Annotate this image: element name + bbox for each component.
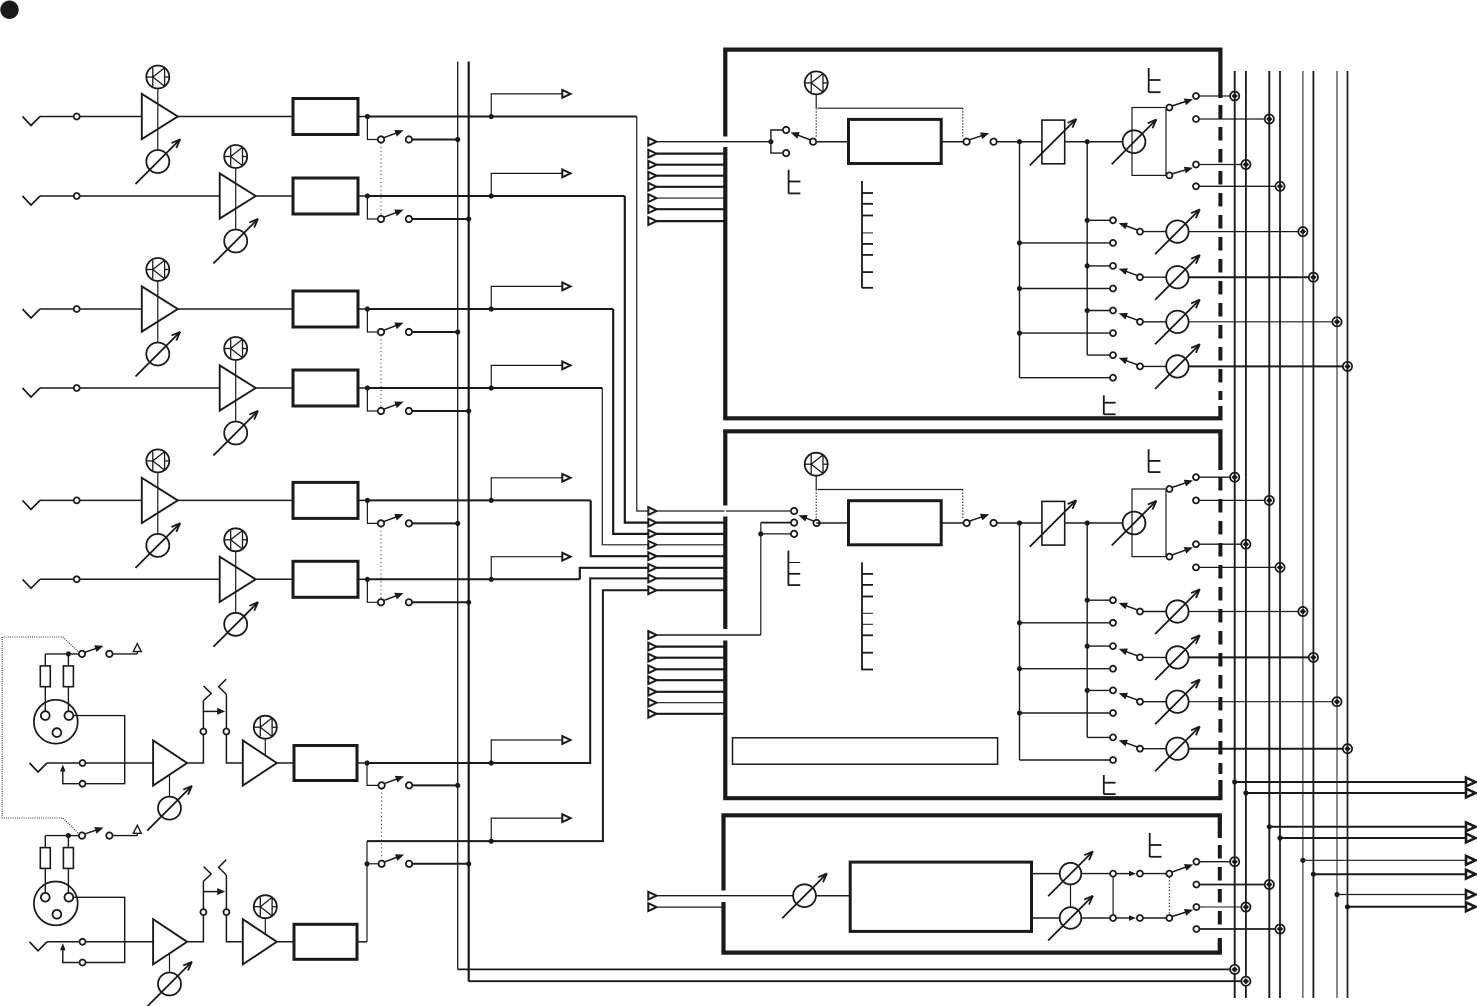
- gain pot CH2: [224, 230, 247, 253]
- wire CH2 to stereo box feed: [625, 196, 725, 523]
- aux send 4 wiper: [1137, 363, 1143, 369]
- junction bus7: [1332, 317, 1341, 326]
- arrow stereo box fan1 input 8: [648, 586, 656, 594]
- arrow box1 input 4: [648, 172, 656, 180]
- aux send 2 wiper: [1137, 654, 1143, 660]
- routing switch CH3: [378, 329, 384, 335]
- aux send 2 lower terminal: [1110, 666, 1116, 672]
- bus A bottom wire to main bus 1: [458, 968, 1231, 970]
- aux send 4 lower terminal: [1110, 375, 1116, 381]
- wire bus 3 output: [1269, 826, 1468, 828]
- wire assign 1 to bus 1: [1199, 476, 1231, 478]
- phantom switch MIC-A: [71, 653, 80, 655]
- node MIC-A branch: [489, 760, 494, 765]
- routing switch CH1: [378, 136, 384, 142]
- junction bus6: [1309, 273, 1318, 282]
- wire FX out to bus3: [1199, 884, 1265, 886]
- contact MIC-A tip: [80, 760, 86, 766]
- junction bus5: [1298, 227, 1307, 236]
- peak LED CH6: [224, 528, 247, 551]
- junction bus3: [1265, 496, 1274, 505]
- gain pot CH6: [224, 613, 247, 636]
- wire aux wiper to pot: [1143, 748, 1166, 750]
- insert send jack MIC-B: [200, 909, 206, 915]
- box border top: [721, 813, 1222, 817]
- wire CH6 EQ output: [358, 578, 367, 580]
- wire CH2 EQ output: [358, 195, 367, 197]
- EQ bypass drop: [962, 108, 964, 138]
- aux send 2 lever: [1123, 270, 1138, 276]
- wire CH2 terminal to preamp: [80, 195, 220, 197]
- arrow box1 input 3: [648, 161, 656, 169]
- aux send 3 lower terminal: [1110, 710, 1116, 716]
- connector comb box2: [861, 562, 863, 670]
- wire aux 1 to bus 5: [1189, 611, 1300, 613]
- wire CH5 post-EQ line: [367, 499, 590, 501]
- pre-fader aux feed line: [1019, 142, 1021, 378]
- wire aux 1 to bus 5: [1189, 231, 1300, 233]
- switch pole: [810, 139, 816, 145]
- wire CH1 direct-out branch: [491, 94, 570, 117]
- wire CH3 direct-out branch: [491, 286, 570, 309]
- routing switch MIC-A: [378, 782, 384, 788]
- aux send 4 post tap: [1087, 354, 1110, 356]
- box border right dashed: [1218, 477, 1222, 774]
- insert return jack MIC-B: [223, 909, 229, 915]
- wire stereo box fan2 input 1: [648, 634, 761, 636]
- wire CH5 preamp to EQ: [178, 499, 293, 501]
- wire throw2 feed: [761, 522, 791, 524]
- wire CH4 to stereo box feed: [602, 388, 724, 545]
- arrow CH5 direct out: [562, 474, 570, 482]
- wire MIC-B jack to contact: [47, 941, 80, 943]
- select throw 2: [791, 519, 797, 525]
- junction bus7: [1332, 697, 1341, 706]
- wire CH2 direct-out branch: [491, 173, 570, 196]
- wire stereo box fan2 input 8: [648, 713, 725, 715]
- gang link FX switches: [1168, 877, 1170, 914]
- arrow stereo box fan1 input 7: [648, 575, 656, 583]
- aux send 3 lever: [1123, 695, 1138, 701]
- aux send 3 post tap: [1085, 688, 1090, 693]
- connector symbol E7: [1149, 833, 1151, 857]
- preamp CH6: [220, 557, 256, 602]
- wire bus 8 output: [1348, 906, 1469, 908]
- gang link switches CH5/CH6: [380, 527, 382, 599]
- phantom rail MIC-A: [45, 653, 68, 655]
- aux send 2 wiper: [1137, 274, 1143, 280]
- wire MIC-B switch to bus B: [412, 863, 468, 865]
- aux send 2 pot: [1166, 646, 1188, 668]
- wire LED CH1 stem: [157, 89, 159, 151]
- node CH5 branch: [489, 498, 494, 503]
- wire CH4 post-EQ line: [367, 387, 602, 389]
- wire CH6 direct-out branch: [491, 557, 570, 580]
- assign switch upper lever: [1172, 100, 1189, 106]
- junction bus5: [1298, 607, 1307, 616]
- node bus 6 output tap: [1311, 872, 1316, 877]
- insert send jack MIC-A: [200, 729, 206, 735]
- terminal CH5 input: [74, 497, 80, 503]
- aux send 2 pot: [1166, 266, 1188, 288]
- node CH1 post-EQ: [365, 114, 370, 119]
- peak LED MIC-A: [254, 716, 277, 739]
- node CH3 branch: [489, 306, 494, 311]
- channel CH2 input jack: [23, 196, 41, 205]
- junction bus4: [1275, 563, 1284, 572]
- junction bus1: [1230, 473, 1239, 482]
- wire CH3 preamp to EQ: [178, 308, 293, 310]
- arrow stereo box fan2 input 5: [648, 676, 656, 684]
- FX processor block: [850, 862, 1031, 931]
- EQ block CH5: [293, 482, 358, 518]
- peak LED CH3: [146, 258, 169, 281]
- wire MIC-A pin2 to R2: [67, 687, 69, 712]
- wire MIC-A contact to amp: [86, 762, 154, 764]
- main bus 8 vertical: [1347, 71, 1349, 998]
- aux send 1 wiper: [1137, 609, 1143, 615]
- wire box3 input 2: [648, 906, 724, 908]
- arrow MIC-B normalling: [62, 950, 64, 963]
- wire CH1 to routing switch: [367, 117, 378, 140]
- node CH1 branch: [489, 114, 494, 119]
- aux send 1 lever: [1123, 225, 1138, 231]
- FX input pot: [793, 884, 816, 907]
- node bus 3 output tap: [1267, 824, 1272, 829]
- wire assign 2 to bus 3: [1199, 499, 1266, 501]
- wire aux wiper to pot: [1143, 365, 1166, 367]
- wire CH1 switch to bus: [412, 139, 458, 141]
- arrow MIC-B insert link: [203, 891, 218, 893]
- wire CH4 jack to pad terminal: [40, 387, 74, 389]
- bus B bottom wire to main bus 2: [469, 980, 1243, 982]
- wire MIC-A to stereo box feed: [367, 578, 725, 763]
- node pre-fader send: [1017, 520, 1022, 525]
- wire EQ to bypass switch: [941, 522, 963, 524]
- aux send 4 lever: [1123, 742, 1138, 748]
- wire CH3 switch to bus: [412, 331, 458, 333]
- connector symbol E3: [1103, 395, 1105, 414]
- FX assign pivot R: [1166, 915, 1172, 921]
- node CH2 post-EQ: [365, 193, 370, 198]
- aux send 3 pot: [1166, 311, 1188, 333]
- wire MIC-B preamp to insert send: [187, 915, 203, 942]
- bypass switch pivot: [963, 139, 969, 145]
- pan splitter: [1132, 108, 1166, 176]
- wire CH6 terminal to preamp: [80, 578, 220, 580]
- gain pot CH1: [146, 150, 169, 173]
- assign throw 1: [1193, 93, 1199, 99]
- wire CH6 to stereo box feed: [580, 568, 725, 580]
- arrow bus 2 output: [1466, 789, 1476, 798]
- connector symbol E4: [787, 551, 789, 586]
- junction bus2: [1241, 160, 1250, 169]
- preamp CH1: [142, 94, 178, 139]
- arrow stereo box fan2 input 7: [648, 699, 656, 707]
- FX throw 1: [1193, 859, 1199, 865]
- wire assign 2 to bus 3: [1199, 118, 1266, 120]
- XLR MIC-B pin 2: [65, 893, 74, 902]
- box border right solid top: [1218, 50, 1222, 98]
- channel CH5 input jack: [23, 500, 41, 509]
- box border right solid top: [1218, 431, 1222, 470]
- wire stereo box fan2 input 7: [648, 702, 725, 704]
- node CH5 post-EQ: [365, 498, 370, 503]
- node MIC-A phantom rail: [66, 651, 71, 656]
- wire CH5 EQ output: [358, 499, 367, 501]
- wire send jacks link: [1112, 877, 1114, 915]
- wire CH6 to routing switch: [367, 579, 378, 602]
- wire MIC-B to routing switch: [367, 863, 378, 865]
- aux send 3 lever: [1123, 315, 1138, 321]
- FX throw 4: [1193, 926, 1199, 932]
- aux send 1 upper terminal: [1110, 217, 1116, 223]
- wire CH5 to stereo box feed: [591, 500, 725, 556]
- wire pot R to send jack: [1081, 917, 1110, 919]
- wire box1 input 3: [648, 164, 725, 166]
- XLR MIC-A pin 3: [53, 728, 62, 737]
- pan pot: [1123, 512, 1146, 535]
- bypass switch pivot: [963, 520, 969, 526]
- wire CH1 EQ output: [358, 116, 367, 118]
- wire pots link: [1070, 884, 1072, 907]
- wire MIC-A pin1 to R1: [44, 687, 46, 712]
- arrow bus 8 output: [1466, 902, 1476, 911]
- node bus 2 output tap: [1243, 790, 1248, 795]
- node CH1 bus tap: [455, 137, 460, 142]
- preamp CH5: [142, 478, 178, 523]
- aux send 1 lever: [1123, 604, 1138, 610]
- wire pot L to send jack: [1081, 873, 1110, 875]
- pre-fader aux feed line: [1019, 523, 1021, 760]
- wire CH3 EQ output: [358, 308, 367, 310]
- arrow box3 input 1: [648, 892, 656, 900]
- wire EQ to bypass switch: [941, 141, 963, 143]
- wire MIC-A amp to EQ: [277, 762, 294, 764]
- wire CH1 jack to pad terminal: [40, 116, 74, 118]
- wire CH4 preamp to EQ: [256, 387, 293, 389]
- wire aux wiper to pot: [1143, 656, 1166, 658]
- wire CH6 preamp to EQ: [256, 578, 293, 580]
- wire MIC-A phantom switch to +48V: [113, 653, 138, 655]
- wire MIC-A pot stem: [169, 774, 171, 797]
- arrow CH2 direct out: [562, 170, 570, 178]
- mic preamp MIC-B: [153, 919, 187, 964]
- wire MIC-B normal loop: [63, 959, 80, 963]
- EQ bypass switch input node: [768, 139, 773, 144]
- wire aux wiper to pot: [1143, 276, 1166, 278]
- arrow box3 input 2: [648, 903, 656, 911]
- aux send 4 upper terminal: [1110, 352, 1116, 358]
- main bus 5 vertical: [1302, 71, 1304, 998]
- wire CH3 post-EQ line: [367, 308, 613, 310]
- wire MIC-B EQ output: [357, 941, 367, 943]
- node MIC-A post-EQ: [364, 760, 369, 765]
- wire MIC-B pin2 to R2: [67, 868, 69, 893]
- routing switch MIC-B: [378, 861, 384, 867]
- arrow FX link L: [1116, 873, 1130, 875]
- peak LED CH2: [224, 145, 247, 168]
- terminal CH3 input: [74, 306, 80, 312]
- aux send 4 pre tap: [1020, 759, 1111, 761]
- terminal CH2 input: [74, 193, 80, 199]
- wire MIC-B XLR output: [73, 897, 124, 942]
- node bus 4 output tap: [1277, 835, 1282, 840]
- arrow MIC-A direct out: [562, 736, 570, 744]
- node post-fader send: [1085, 139, 1090, 144]
- terminal CH6 input: [74, 576, 80, 582]
- wire bus 2 output: [1246, 792, 1468, 794]
- wire pot to FX: [816, 895, 850, 897]
- EQ bypass drop: [962, 490, 964, 520]
- XLR connector MIC-A: [34, 700, 78, 744]
- peak LED CH1: [146, 66, 169, 89]
- assign switch upper lever: [1172, 482, 1189, 488]
- wire stereo box fan2 input 6: [648, 691, 725, 693]
- bypass switch lever: [969, 516, 985, 522]
- peak LED CH5: [146, 449, 169, 472]
- gain pot MIC-B: [158, 973, 181, 996]
- gain pot CH3: [146, 343, 169, 366]
- insert return jack MIC-A: [223, 729, 229, 735]
- wire CH2 jack to pad terminal: [40, 195, 74, 197]
- box border right solid bottom: [1218, 938, 1222, 953]
- wire MIC-A R2 top: [67, 654, 69, 666]
- aux send 2 lever: [1123, 650, 1138, 656]
- wire CH4 direct-out branch: [491, 365, 570, 388]
- wire box1 input 1: [648, 141, 771, 143]
- assign throw 4: [1193, 183, 1199, 189]
- aux send 4 pot: [1166, 355, 1188, 377]
- wire CH4 EQ output: [358, 387, 367, 389]
- line amp MIC-B: [243, 919, 277, 964]
- wire assign 4 to bus 4: [1199, 185, 1276, 187]
- preamp CH4: [220, 365, 256, 410]
- main bus 1 vertical: [1234, 71, 1236, 998]
- FX return jack R: [1137, 915, 1143, 921]
- wire return R to switch: [1143, 917, 1166, 919]
- post-fader aux feed line: [1086, 523, 1088, 737]
- node CH6 branch: [489, 577, 494, 582]
- wire MIC-A insert return to amp: [226, 735, 242, 764]
- arrow CH4 direct out: [562, 362, 570, 370]
- wire MIC-A normal loop: [63, 780, 80, 784]
- junction bus8: [1343, 744, 1352, 753]
- wire box3 input: [648, 895, 794, 897]
- wire aux 4 to bus 8: [1189, 365, 1344, 367]
- routing switch CH2: [378, 216, 384, 222]
- FX throw 3: [1193, 904, 1199, 910]
- arrow stereo box fan1 input 2: [648, 519, 656, 527]
- assign throw 4: [1193, 564, 1199, 570]
- phantom power loop wire: [2, 637, 79, 834]
- FX assign lever R: [1172, 911, 1190, 917]
- node CH2 branch: [489, 193, 494, 198]
- wire MIC-B LED stem: [264, 918, 266, 935]
- bypass switch throw: [990, 520, 996, 526]
- connector symbol E5: [1148, 449, 1150, 472]
- peak LED MIC-B: [254, 895, 277, 918]
- aux send 2 upper terminal: [1110, 643, 1116, 649]
- box border left: [723, 431, 727, 505]
- node CH6 bus tap: [466, 600, 471, 605]
- wire assign 1 to bus 1: [1199, 95, 1231, 97]
- aux send 4 pre tap: [1020, 377, 1111, 379]
- assign switch lower lever: [1172, 549, 1189, 555]
- pan pot: [1123, 130, 1146, 153]
- routing switch CH5: [378, 520, 384, 526]
- box border top: [723, 47, 1222, 51]
- wire to fader: [997, 141, 1042, 143]
- wire CH4 terminal to preamp: [80, 387, 220, 389]
- junction bus2: [1241, 540, 1250, 549]
- arrow bus 7 output: [1466, 890, 1476, 899]
- arrow box1 input 5: [648, 183, 656, 191]
- fader: [1042, 120, 1065, 164]
- EQ block CH3: [293, 291, 358, 327]
- arrow stereo box fan1 input 5: [648, 552, 656, 560]
- connector symbol E1: [788, 170, 790, 194]
- arrow FX link R: [1116, 917, 1130, 919]
- box border bottom: [723, 796, 1222, 800]
- +48V symbol MIC-B: [133, 825, 141, 833]
- wire CH2 preamp to EQ: [256, 195, 293, 197]
- connector comb box1: [861, 181, 863, 288]
- aux send 2 post tap: [1085, 644, 1090, 649]
- node CH4 branch: [489, 385, 494, 390]
- arrow stereo box fan2 input 2: [648, 643, 656, 651]
- wire MIC-A preamp to insert send: [187, 735, 203, 764]
- wire CH1 terminal to preamp: [80, 116, 142, 118]
- wire box1 input 4: [648, 175, 725, 177]
- +48V symbol MIC-A: [133, 644, 141, 652]
- node throw3 feed: [758, 531, 763, 536]
- arrow stereo box fan2 input 1: [648, 631, 656, 639]
- peak LED master: [805, 453, 828, 476]
- bus A vertical (left mix bus L): [457, 62, 459, 970]
- wire CH2 to routing switch: [367, 196, 378, 219]
- arrow CH1 direct out: [562, 90, 570, 98]
- wire aux 4 to bus 8: [1189, 748, 1344, 750]
- arrow stereo box fan1 input 1: [648, 507, 656, 515]
- wire pan to upper assign: [1165, 488, 1167, 490]
- assign throw 3: [1193, 162, 1199, 168]
- junction bottom bus B to bus2: [1241, 977, 1250, 986]
- EQ block master: [849, 119, 942, 163]
- FX return jack L: [1137, 871, 1143, 877]
- wire MIC-B R1 top: [44, 836, 46, 848]
- wire FX out to bus2: [1199, 906, 1242, 908]
- arrow box1 input 1: [648, 138, 656, 146]
- EQ bypass wire: [818, 107, 963, 109]
- wire select riser: [760, 523, 762, 635]
- box border right solid top: [1218, 815, 1222, 838]
- mic preamp MIC-A: [153, 740, 187, 785]
- node bus 8 output tap: [1345, 904, 1350, 909]
- wire CH6 jack to pad terminal: [40, 578, 74, 580]
- wire CH1 to stereo box feed: [637, 117, 725, 512]
- wire MIC-B riser: [366, 841, 368, 942]
- wire CH5 switch to bus: [412, 522, 458, 524]
- wire CH3 terminal to preamp: [80, 308, 142, 310]
- arrow stereo box fan2 input 6: [648, 688, 656, 696]
- node bus 7 output tap: [1334, 892, 1339, 897]
- preamp CH2: [220, 173, 256, 218]
- switch throw lower: [783, 150, 789, 156]
- junction FX bus4: [1275, 924, 1284, 933]
- wire MIC-A jack to contact: [47, 762, 80, 764]
- node MIC-B bus tap: [466, 861, 471, 866]
